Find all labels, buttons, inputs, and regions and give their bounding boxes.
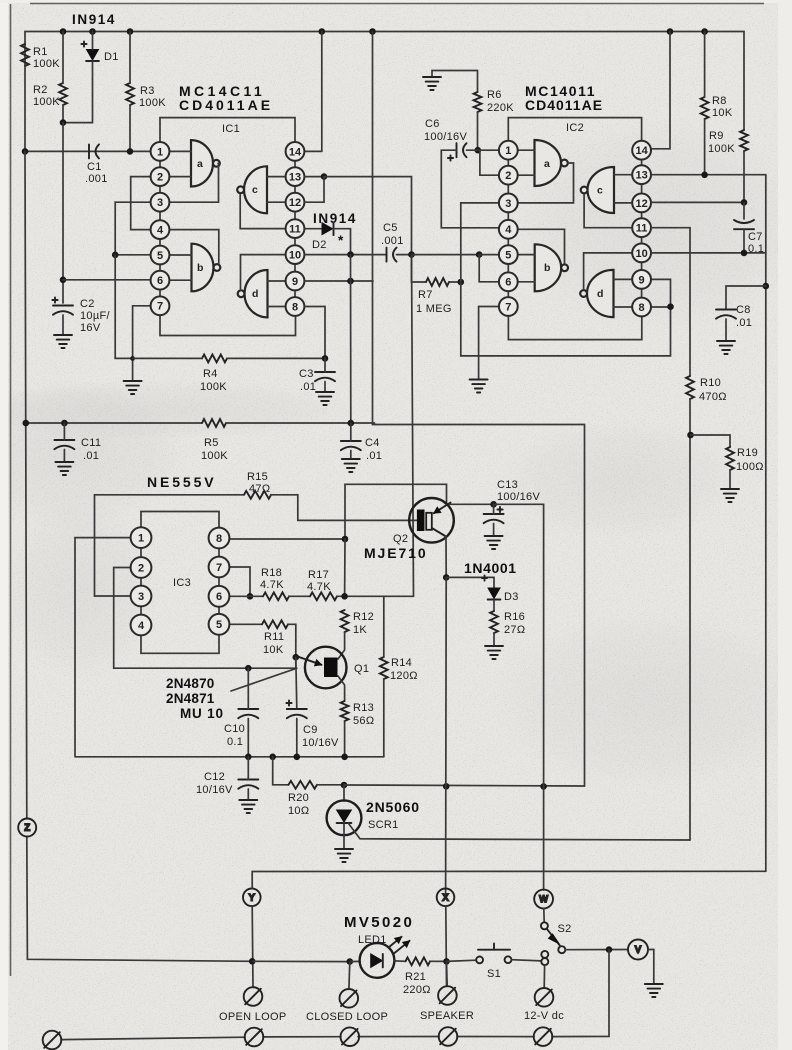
svg-text:Z: Z — [24, 823, 30, 833]
svg-text:MU 10: MU 10 — [180, 706, 224, 721]
wire S1 to 12V contacts — [511, 960, 541, 961]
svg-text:R10: R10 — [700, 377, 721, 389]
svg-text:a: a — [544, 158, 550, 170]
wire X down — [445, 906, 448, 986]
wire W to S2 contact — [543, 909, 545, 923]
svg-text:C12: C12 — [204, 771, 225, 783]
wire IC1 pin13-pin12 loop — [305, 177, 325, 203]
svg-text:6: 6 — [157, 275, 163, 287]
ground below R19 — [721, 489, 739, 502]
wire IC1 pin10 row to C5 — [305, 254, 387, 256]
svg-text:1: 1 — [157, 146, 163, 158]
svg-text:47Ω: 47Ω — [249, 483, 270, 495]
IC1 gate c — [237, 166, 267, 213]
switch S2 throw contact — [558, 946, 565, 953]
wire C4 top — [350, 423, 352, 441]
svg-text:3: 3 — [138, 591, 144, 603]
wire R1 bottom to C1 row — [24, 66, 26, 151]
svg-text:Y: Y — [249, 893, 255, 903]
svg-text:10: 10 — [635, 248, 647, 260]
ground below V — [645, 984, 663, 997]
wire R3 bottom to C1 row — [129, 105, 131, 151]
capacitor C4 — [341, 441, 361, 450]
IC1 pin 3 — [151, 193, 170, 212]
wire Y down to open loop — [251, 906, 254, 987]
wire IC1 pin2 to gate a — [170, 176, 192, 178]
svg-text:R15: R15 — [247, 471, 268, 483]
transistor Q2 collector lead — [432, 528, 446, 537]
wire collector node down to X — [445, 577, 448, 897]
svg-text:10µF/: 10µF/ — [80, 310, 110, 322]
IC3 pin 4 — [131, 615, 152, 636]
wire IC2 pin13 to gate c — [614, 174, 632, 176]
border frame top line — [30, 3, 764, 5]
svg-text:CLOSED LOOP: CLOSED LOOP — [306, 1011, 388, 1023]
svg-text:9: 9 — [292, 276, 298, 288]
node dot pin13 junction — [321, 173, 328, 180]
svg-text:.001: .001 — [381, 235, 404, 247]
wire IC3 pin5 right — [229, 623, 262, 625]
svg-text:100K: 100K — [33, 58, 60, 70]
svg-text:d: d — [252, 288, 258, 300]
IC1 pin 2 — [151, 167, 170, 186]
svg-text:Q1: Q1 — [354, 663, 369, 675]
svg-text:V: V — [635, 945, 641, 955]
wire C13 bottom — [493, 524, 495, 537]
wire IC1 pin7 left to ground — [133, 306, 152, 381]
plus mark C2 — [52, 297, 57, 302]
wire X riser to speaker — [446, 961, 449, 986]
wire S2 riser to bottom row — [552, 950, 609, 1037]
svg-text:C9: C9 — [303, 724, 318, 736]
svg-text:2: 2 — [138, 562, 144, 574]
node dot C11 — [61, 420, 68, 427]
node dot D1/R2 — [60, 119, 67, 126]
svg-text:MJE710: MJE710 — [364, 545, 428, 561]
wire C8 branch — [726, 286, 766, 310]
IC3 bottom loop — [141, 636, 219, 653]
LED LED1 triangle — [371, 954, 383, 968]
wire IC2 pin5 to gate b — [518, 254, 535, 256]
IC1 pin 1 — [151, 142, 170, 161]
wire IC3 pin6 right — [229, 595, 263, 597]
switch contact upper (12V) — [541, 951, 548, 958]
IC2 pin 11 — [632, 218, 651, 237]
terminal OPEN LOOP — [244, 987, 263, 1006]
wire R6 bottom to C6 node — [477, 112, 479, 150]
wire Y horizontal to right rail — [252, 870, 766, 872]
svg-text:R12: R12 — [353, 611, 374, 623]
wire V to ground — [648, 950, 654, 984]
svg-text:IN914: IN914 — [313, 211, 357, 226]
svg-text:.01: .01 — [736, 317, 752, 329]
wire IC2 pin12 to gate c — [614, 202, 632, 204]
wire C6 left loop to pin4 — [441, 150, 498, 228]
wire pin8row/R12 riser — [344, 539, 346, 596]
svg-text:100/16V: 100/16V — [424, 131, 467, 143]
node dot right rail/C8 branch — [763, 283, 770, 290]
LED LED1 body — [360, 943, 395, 978]
node dot Q1 gate node — [293, 654, 300, 661]
wire IC3 pin3 left — [95, 595, 132, 597]
node dot rail/C10 — [245, 754, 252, 761]
node dot R10/R19 — [687, 432, 694, 439]
IC2 pin 6 — [499, 272, 518, 291]
resistor R14 — [380, 657, 388, 679]
IC2 pin 2 — [499, 166, 518, 185]
IC3 pin 2 — [131, 557, 152, 578]
wire bottom terminal row b — [263, 1036, 341, 1038]
capacitor C6 — [457, 143, 467, 157]
terminal CLOSED LOOP — [340, 989, 359, 1008]
wire V+ branch row — [375, 425, 585, 787]
wire IC1 gate a output to pin3 — [170, 163, 219, 202]
diode D3 — [488, 588, 501, 600]
svg-text:R17: R17 — [308, 569, 329, 581]
wire C13 top — [493, 504, 495, 514]
resistor R18 — [263, 592, 289, 600]
IC3 pin 5 — [209, 614, 230, 635]
wire R4 row — [133, 357, 202, 359]
svg-text:d: d — [597, 288, 603, 300]
capacitor C7 — [734, 220, 754, 229]
switch S2 pole contact — [541, 922, 548, 929]
capacitor C12 — [238, 780, 258, 789]
svg-text:10Ω: 10Ω — [288, 805, 309, 817]
capacitor C5 — [387, 248, 397, 262]
svg-text:5: 5 — [505, 250, 511, 262]
svg-text:12: 12 — [635, 198, 647, 210]
wire R18-R17 — [289, 595, 310, 597]
svg-text:1: 1 — [138, 533, 144, 545]
wire C10 bottom to rail — [247, 719, 249, 757]
svg-text:4: 4 — [138, 620, 145, 632]
capacitor C13 — [484, 514, 504, 523]
wire IC3 pin2 left — [114, 568, 297, 669]
wire C11 bottom — [63, 450, 65, 463]
IC1 pin 7 — [151, 296, 170, 315]
svg-text:R21: R21 — [405, 971, 426, 983]
resistor R21 — [406, 957, 431, 965]
svg-text:4: 4 — [157, 225, 164, 237]
svg-text:27Ω: 27Ω — [504, 624, 525, 636]
svg-text:3: 3 — [505, 198, 511, 210]
wire R19 branch — [691, 435, 731, 447]
wire C12 top — [247, 757, 249, 780]
svg-text:C11: C11 — [81, 437, 101, 449]
wire C7 top — [743, 202, 745, 219]
transistor Q2 emitter lead — [434, 503, 451, 514]
IC3 pin 7 — [209, 557, 230, 578]
LED arrow 1 — [389, 937, 402, 948]
terminal bottom 1 — [43, 1031, 62, 1050]
wire IC3 pin7 right — [229, 567, 250, 596]
svg-text:10/16V: 10/16V — [302, 737, 339, 749]
wire S2 to V node — [565, 949, 628, 951]
plus mark D3 — [482, 575, 487, 580]
svg-text:.001: .001 — [85, 173, 108, 185]
IC2 pin 5 — [499, 245, 518, 264]
wire IC3 pin1 left — [75, 538, 131, 756]
wire C8 bottom — [725, 319, 727, 341]
node dot W riser/R20 row — [540, 783, 547, 790]
svg-text:.01: .01 — [83, 450, 99, 462]
capacitor C2 — [53, 306, 73, 315]
svg-text:100/16V: 100/16V — [497, 491, 540, 503]
IC2 pin 1 — [499, 141, 518, 160]
wire bottom terminal row — [61, 1037, 245, 1039]
svg-text:13: 13 — [289, 172, 301, 184]
ground below C4 — [342, 459, 360, 472]
top supply rail — [25, 32, 744, 131]
svg-text:D1: D1 — [104, 51, 119, 63]
wire IC3 pin column left joins — [140, 546, 142, 617]
svg-text:S2: S2 — [558, 923, 572, 935]
node dot pin8 row — [342, 536, 349, 543]
ground IC1 pin7 — [124, 381, 142, 394]
wire pin6 row to R14 — [383, 596, 385, 657]
ground below R16 — [485, 646, 503, 659]
transistor Q2 body — [409, 498, 454, 543]
ground below C2 — [54, 335, 72, 348]
svg-text:C2: C2 — [80, 298, 95, 310]
IC1 pin 9 — [286, 272, 305, 291]
plus mark C13 — [497, 507, 502, 512]
node dot C1 row / R3 — [127, 148, 134, 155]
IC1 gate d — [238, 270, 268, 317]
svg-text:IC3: IC3 — [173, 577, 191, 589]
svg-text:2N5060: 2N5060 — [366, 799, 420, 815]
wire IC2 pin column right joins — [641, 159, 643, 298]
IC2 pin 13 — [632, 165, 651, 184]
IC2 pin 7 — [499, 297, 518, 316]
svg-text:4: 4 — [505, 224, 512, 236]
wire IC2 pin8 right — [652, 306, 671, 308]
svg-text:R19: R19 — [737, 447, 758, 459]
wire IC3 pin8 right — [229, 538, 345, 540]
svg-text:R3: R3 — [140, 85, 155, 97]
wire IC1 pin13 to gate c — [267, 176, 286, 178]
svg-text:c: c — [252, 184, 258, 196]
wire R9 bottom to pin12 row — [743, 151, 745, 202]
svg-text:D3: D3 — [504, 591, 519, 603]
page right edge highlight — [778, 0, 792, 1050]
svg-text:R5: R5 — [204, 437, 219, 449]
svg-text:12: 12 — [289, 197, 301, 209]
wire IC1 pin11 to D2 — [305, 228, 323, 230]
wire rail to R8 — [704, 32, 706, 98]
wire main row to LED — [350, 960, 360, 962]
svg-text:a: a — [197, 158, 203, 170]
svg-text:b: b — [544, 262, 550, 274]
LED LED1 cathode bar — [382, 954, 384, 968]
switch contact lower (12V) — [541, 958, 548, 965]
wire left rail down to Z — [25, 151, 27, 818]
svg-text:C10: C10 — [224, 723, 245, 735]
wire C5 to junction — [397, 254, 412, 256]
wire C3 to ground — [324, 358, 326, 372]
svg-text:S1: S1 — [487, 968, 501, 980]
wire IC1 pin9 row — [305, 280, 374, 282]
IC2 pin 3 — [499, 194, 518, 213]
wire R21 to X riser — [430, 960, 447, 962]
wire IC1 pin8 to C3 — [305, 307, 326, 359]
svg-text:C4: C4 — [365, 437, 380, 449]
svg-text:.01: .01 — [366, 450, 382, 462]
resistor R15 — [244, 491, 271, 499]
svg-text:IN914: IN914 — [72, 12, 116, 27]
wire IC2 pin9 right — [652, 279, 671, 306]
svg-text:R18: R18 — [261, 567, 282, 579]
svg-text:100Ω: 100Ω — [736, 461, 764, 473]
IC1 pin 6 — [151, 271, 170, 290]
node dot IC2 pin5 feed — [476, 251, 483, 258]
svg-text:8: 8 — [639, 302, 645, 314]
terminal 12-V dc — [535, 988, 554, 1007]
node dot C4 — [348, 420, 355, 427]
wire IC1 pin13 row — [305, 176, 325, 178]
wire Z riser bottom — [27, 837, 252, 962]
plus mark D1 — [81, 41, 86, 46]
node Z — [18, 819, 36, 837]
wire IC2 pin6 to gate b — [518, 281, 535, 283]
wire IC2 pin8 to gate d — [614, 306, 633, 308]
svg-text:3: 3 — [157, 197, 163, 209]
IC2 gate d — [580, 270, 613, 317]
wire IC2 pin1-pin2 tie — [478, 150, 499, 175]
svg-text:1: 1 — [505, 145, 511, 157]
svg-text:R2: R2 — [33, 84, 48, 96]
wire C10 riser — [247, 668, 249, 709]
thyristor SCR1 triangle — [337, 810, 352, 822]
IC2 top loop pin1-pin14 — [508, 118, 641, 142]
wire IC1 pin3-pin5 loop — [115, 202, 150, 255]
wire C1 row (left rail to IC1 pin1) — [25, 150, 151, 152]
node dot rail/R8 — [701, 28, 708, 35]
resistor R3 — [126, 83, 134, 105]
node dot pin10 row/C7 — [741, 250, 748, 257]
resistor R12 — [341, 610, 349, 632]
capacitor C1 — [89, 144, 99, 158]
svg-text:2: 2 — [505, 170, 511, 182]
wire IC1 pin5 to gate b — [170, 254, 192, 256]
node dot pin10/D2 — [347, 251, 354, 258]
node dot X riser/main row — [443, 958, 450, 965]
wire R20 to SCR node — [317, 784, 344, 786]
svg-text:C6: C6 — [425, 118, 440, 130]
wire D1 to R2 node — [63, 61, 93, 123]
capacitor C10 — [238, 709, 258, 718]
IC1 top loop pin1-pin14 — [160, 118, 295, 142]
svg-text:OPEN LOOP: OPEN LOOP — [219, 1011, 287, 1023]
ground IC2 top-left — [423, 77, 441, 90]
wire rail to R3 — [129, 32, 131, 84]
wire IC2 pin12 row — [651, 201, 744, 203]
ground below SCR — [335, 849, 353, 862]
svg-text:MV5020: MV5020 — [344, 914, 414, 931]
svg-text:7: 7 — [216, 562, 222, 574]
svg-text:100K: 100K — [201, 450, 228, 462]
IC1 pin 11 — [286, 219, 305, 238]
svg-text:*: * — [338, 233, 344, 248]
svg-text:b: b — [197, 262, 203, 274]
wire D3 to R16 — [493, 600, 495, 611]
pointer line MU10 to Q1 — [231, 669, 295, 691]
IC2 pin 9 — [632, 270, 651, 289]
node dot R4 row crossing — [130, 356, 135, 361]
ground IC2 pin7 — [470, 380, 488, 393]
IC3 pin 1 — [131, 527, 152, 548]
wire IC1 pin12 to gate c — [267, 201, 286, 203]
wire D2 riser pin10-pin9-C4 — [350, 255, 352, 423]
svg-text:16V: 16V — [80, 322, 101, 334]
IC3 pin 3 — [131, 586, 152, 607]
svg-text:10/16V: 10/16V — [196, 784, 233, 796]
node dot rail/C9 — [294, 754, 301, 761]
wire C5 node riser to pin6 row — [412, 255, 414, 597]
node Y — [243, 889, 261, 907]
wire IC1 pin6 row — [63, 279, 151, 281]
page top margin highlight — [0, 0, 792, 3]
svg-text:R11: R11 — [264, 631, 284, 643]
svg-text:9: 9 — [639, 274, 645, 286]
terminal SPEAKER — [438, 986, 457, 1005]
svg-text:13: 13 — [635, 170, 647, 182]
IC3 pin 6 — [209, 586, 230, 607]
node dot rail/R2 — [60, 28, 67, 35]
wire IC2 gate d output to pin10 — [584, 253, 632, 290]
wire IC1 pin column right joins — [294, 160, 296, 298]
wire R2 bottom — [62, 105, 64, 123]
resistor R20 — [289, 781, 318, 789]
node dot closed loop riser — [347, 958, 354, 965]
svg-text:56Ω: 56Ω — [353, 715, 374, 727]
svg-text:C5: C5 — [383, 222, 398, 234]
svg-text:R13: R13 — [353, 702, 374, 714]
wire R8 bottom to pin13 row — [704, 119, 706, 175]
wire R19 bottom — [729, 470, 731, 489]
IC1 gate b — [192, 244, 221, 292]
wire bottom terminal row c — [358, 1036, 439, 1038]
svg-text:100K: 100K — [33, 96, 60, 108]
node dot rail/IC1 pin14 feed — [319, 28, 326, 35]
resistor R7 — [426, 278, 449, 286]
terminal bottom 3 — [341, 1027, 360, 1046]
ground below C12 — [239, 800, 257, 813]
wire rail feed to IC1 pin14 — [305, 32, 322, 152]
svg-text:470Ω: 470Ω — [699, 391, 727, 403]
svg-text:7: 7 — [505, 301, 511, 313]
wire IC2 ground stub — [432, 71, 478, 93]
wire R15 to Q2 base — [271, 495, 417, 521]
svg-text:7: 7 — [157, 301, 163, 313]
svg-text:.01: .01 — [300, 381, 316, 393]
switch S1 button bar — [478, 949, 510, 951]
wire IC1 pin8 to gate d — [268, 306, 286, 308]
svg-text:C1: C1 — [87, 161, 102, 173]
node dot Q2 collector/D3 — [443, 574, 450, 581]
wire Q2 emitter loop — [345, 484, 447, 539]
svg-text:220K: 220K — [487, 102, 514, 114]
wire closed loop riser — [348, 962, 351, 990]
node dot SCR anode — [341, 782, 348, 789]
IC2 pin 14 — [632, 141, 651, 160]
switch S1 right contact — [505, 956, 512, 963]
svg-text:10K: 10K — [712, 107, 733, 119]
wire C5 node to IC2 pin5 row — [412, 254, 480, 256]
node dot rail/R20 branch — [269, 754, 276, 761]
resistor R6 — [474, 92, 482, 112]
